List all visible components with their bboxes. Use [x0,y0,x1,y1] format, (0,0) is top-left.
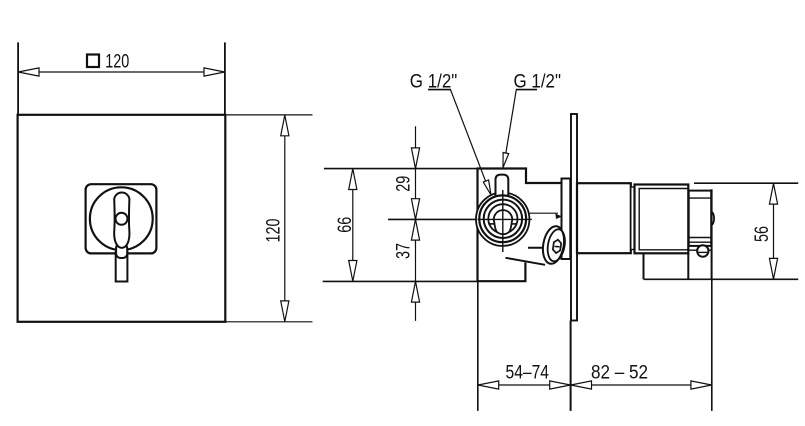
svg-text:56: 56 [751,226,773,242]
svg-text:120: 120 [262,218,284,242]
svg-text:82 – 52: 82 – 52 [591,362,648,384]
svg-text:54–74: 54–74 [506,362,550,384]
svg-text:37: 37 [393,243,415,259]
svg-text:G 1/2": G 1/2" [514,71,562,93]
svg-text:66: 66 [334,217,356,233]
svg-text:120: 120 [105,51,129,73]
svg-text:29: 29 [393,176,415,192]
svg-text:G 1/2": G 1/2" [410,71,458,93]
